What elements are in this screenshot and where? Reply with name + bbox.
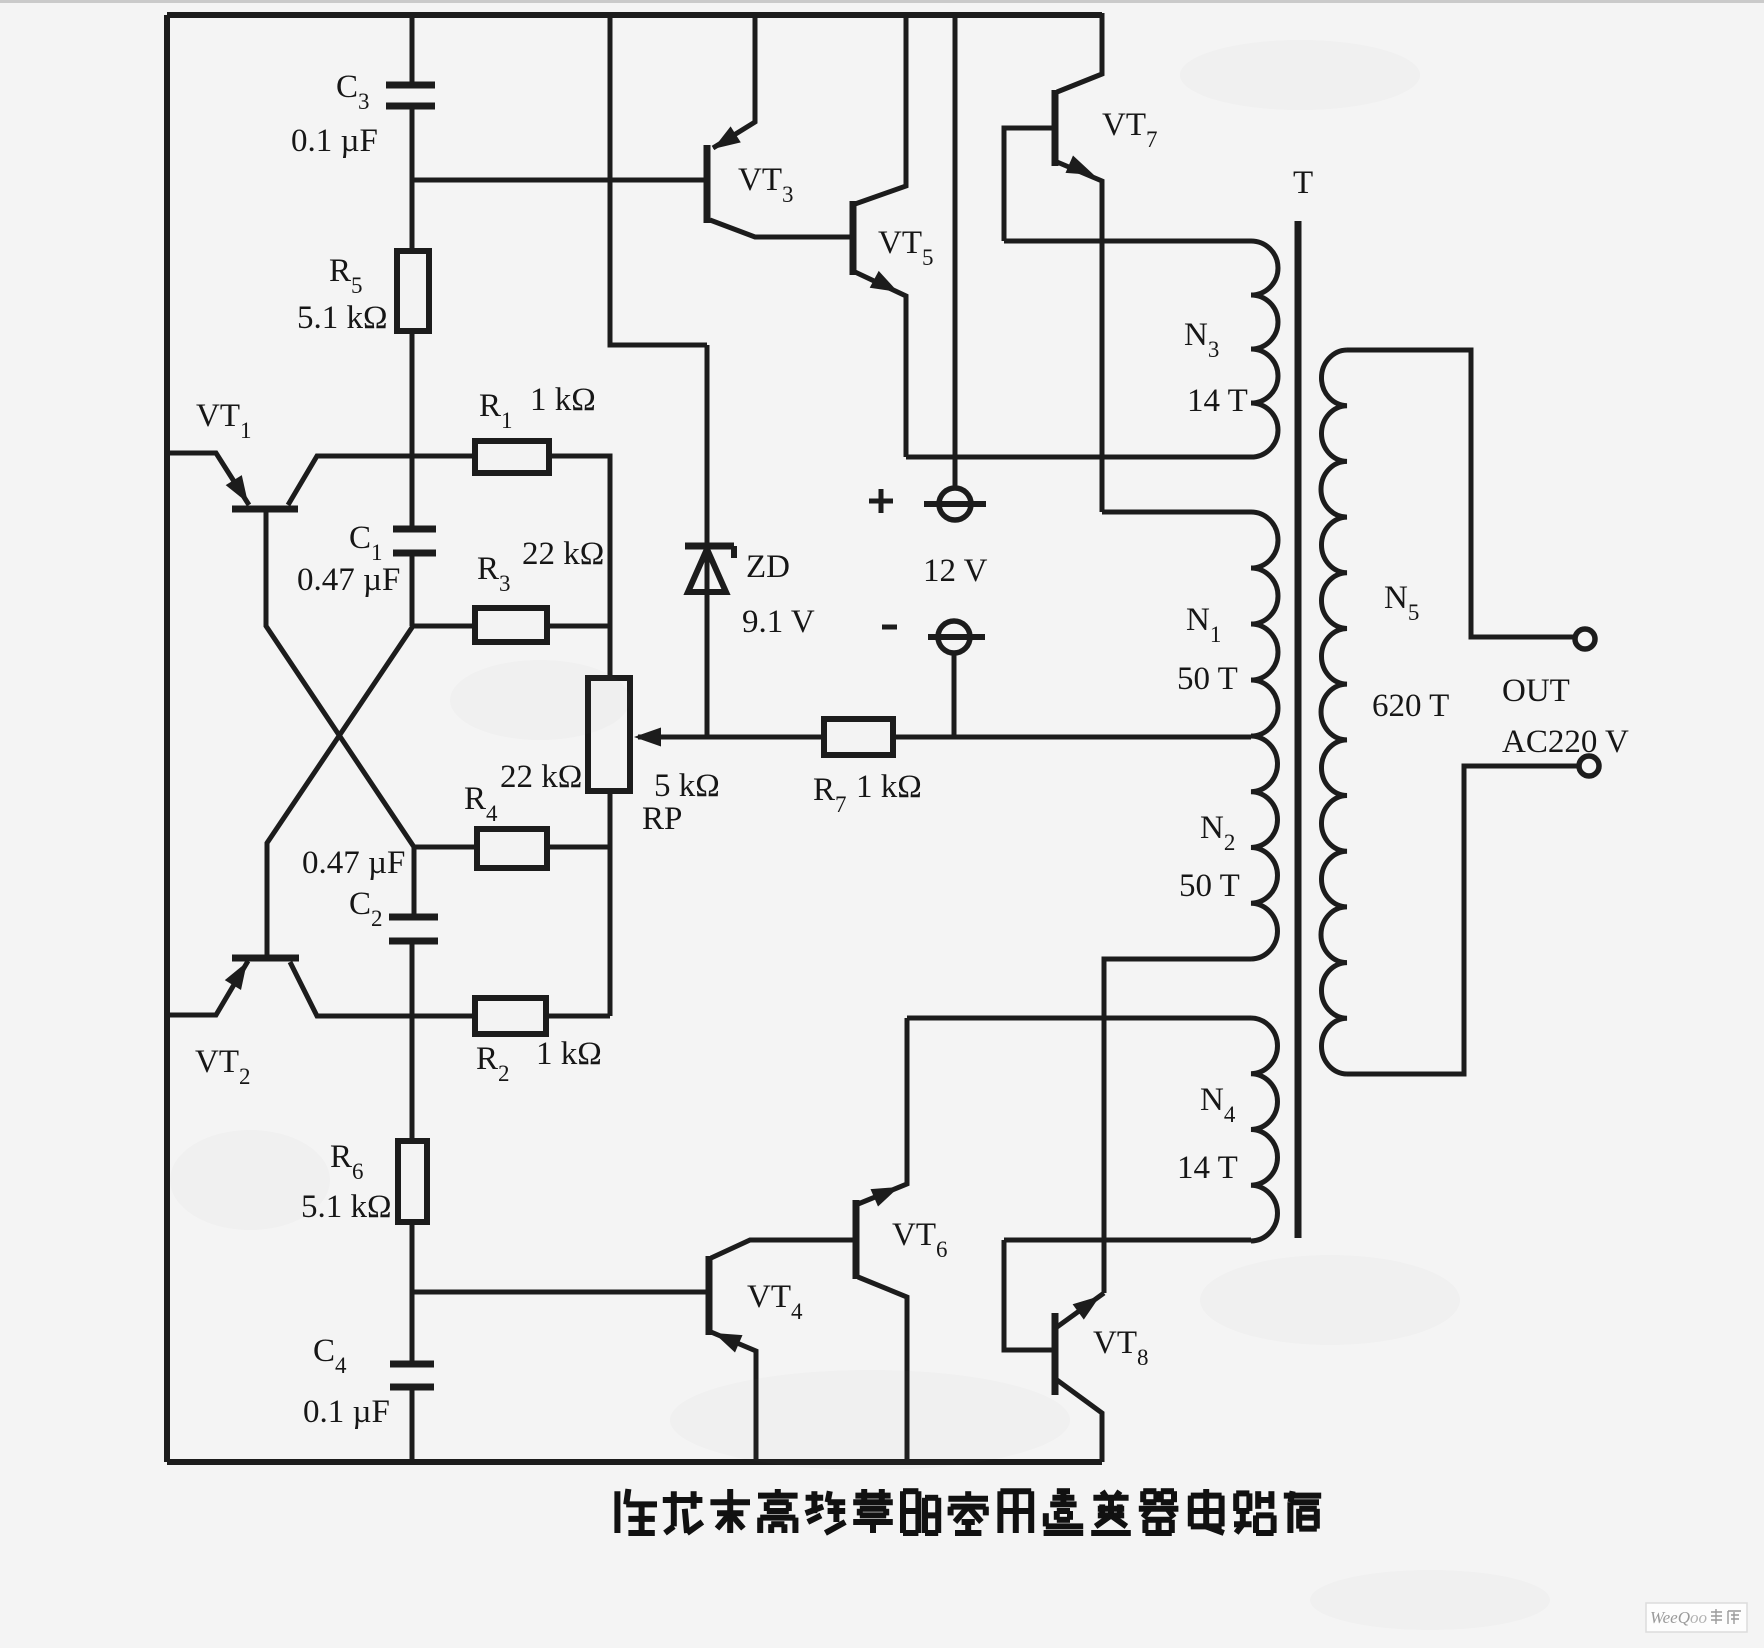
- arrow RP wiper: [638, 735, 710, 740]
- wire R4 left lead: [414, 845, 477, 850]
- battery positive terminal: [939, 488, 971, 520]
- wire N3 top line: [1004, 239, 1251, 244]
- wire VT5 emitter down to N3 bottom line: [855, 272, 906, 457]
- svg-text:C1: C1: [349, 520, 383, 565]
- arrow VT5 emitter (NPN): [870, 271, 898, 292]
- wire C2 top lead from R4 node: [412, 847, 417, 916]
- wire R2 node down to R6: [410, 1016, 415, 1141]
- wire VT7 collector to top rail corner: [1057, 13, 1102, 92]
- svg-text:AC220 V: AC220 V: [1502, 724, 1629, 760]
- svg-text:9.1 V: 9.1 V: [742, 604, 815, 640]
- zener diode ZD: [685, 543, 734, 550]
- svg-text:N5: N5: [1384, 580, 1419, 625]
- wire R5 bottom lead to node at R1 line: [410, 331, 415, 456]
- svg-text:R3: R3: [477, 551, 511, 596]
- svg-text:N1: N1: [1186, 602, 1221, 647]
- arrow VT1 emitter (PNP): [226, 475, 248, 503]
- wire wiper line from RP to R7: [707, 735, 826, 740]
- svg-text:1 kΩ: 1 kΩ: [856, 769, 922, 805]
- svg-text:N4: N4: [1200, 1082, 1236, 1127]
- svg-text:R6: R6: [330, 1139, 364, 1184]
- wire C4 bottom lead to bottom rail: [410, 1387, 415, 1462]
- wire C1 bottom lead to R3 node: [410, 553, 415, 626]
- terminal upper output: [1575, 629, 1595, 649]
- wire VT5 collector to top rail: [855, 13, 906, 204]
- watermark box WeeQoo: [1646, 1603, 1747, 1632]
- winding N3: [1251, 241, 1278, 457]
- wire left supply rail: [164, 15, 170, 1462]
- wire VT4 emitter to bottom rail: [711, 1332, 756, 1462]
- transistor VT4 base bar: [706, 1256, 713, 1335]
- wire VT8 base loop: [1004, 1240, 1052, 1350]
- wire C2 bottom lead: [410, 941, 415, 1016]
- transistor VT2 base bar: [232, 955, 299, 962]
- svg-text:R2: R2: [476, 1041, 510, 1086]
- winding N5: [1321, 350, 1347, 1074]
- capacitor C3: [386, 82, 435, 89]
- svg-text:R7: R7: [813, 772, 847, 817]
- winding N4: [1251, 1018, 1277, 1241]
- wire VT6 emitter up to N4 top: [858, 1018, 907, 1204]
- wire N4 top line from VT6 emitter: [907, 1016, 1251, 1021]
- wire VT4 base line from C4 node: [413, 1290, 706, 1295]
- svg-text:12 V: 12 V: [923, 553, 988, 589]
- wire from top rail jog to zener ZD: [610, 15, 707, 345]
- svg-text:VT3: VT3: [738, 162, 794, 207]
- wire VT6 collector to bottom rail: [858, 1277, 907, 1462]
- wire VT2 emitter from left rail: [167, 961, 248, 1015]
- capacitor C4: [390, 1361, 434, 1368]
- svg-text:620 T: 620 T: [1372, 688, 1449, 724]
- wire VT1 collector diagonal to R1 line: [288, 456, 476, 505]
- svg-text:R5: R5: [329, 253, 363, 298]
- scan smudges (decorative): [170, 40, 1550, 1630]
- svg-text:C4: C4: [313, 1333, 347, 1378]
- wire battery negative lead to R7 line: [952, 653, 957, 737]
- label battery minus sign: [882, 625, 897, 630]
- wire R3 right lead to RP column: [547, 624, 610, 629]
- capacitor C2: [389, 914, 438, 921]
- svg-text:1 kΩ: 1 kΩ: [536, 1036, 602, 1072]
- wire VT3 collector to VT5 base: [710, 220, 851, 237]
- svg-text:VT8: VT8: [1093, 1325, 1149, 1370]
- battery negative terminal: [938, 621, 970, 653]
- svg-text:VT7: VT7: [1102, 107, 1158, 152]
- wire R2 right lead: [546, 1014, 610, 1019]
- wire VT3 emitter from top rail: [713, 13, 755, 148]
- svg-text:0.47 µF: 0.47 µF: [297, 562, 400, 598]
- terminal lower output: [1579, 756, 1599, 776]
- svg-text:VT4: VT4: [747, 1279, 803, 1324]
- wire R7 to transformer center tap: [893, 735, 1251, 740]
- wire VT7 emitter down to N1 top: [1057, 162, 1102, 512]
- arrow VT4 emitter (PNP): [714, 1333, 743, 1353]
- svg-text:14 T: 14 T: [1187, 383, 1248, 419]
- svg-text:R4: R4: [464, 781, 498, 826]
- wire N2 bottom line down to VT8: [1104, 959, 1251, 1293]
- wire N1 top line: [1102, 510, 1251, 515]
- winding N2: [1251, 736, 1277, 959]
- wire N3 bottom line to VT5 emitter: [906, 455, 1251, 460]
- wire bottom supply rail: [167, 1459, 1102, 1465]
- wire VT3 base line from C3 node: [412, 178, 706, 183]
- caption title glyphs: [614, 1491, 620, 1533]
- resistor R3: [475, 608, 547, 642]
- wire VT2 collector diagonal to R2 line: [290, 962, 476, 1016]
- winding N1: [1251, 512, 1278, 736]
- arrow VT6 emitter (NPN): [871, 1187, 900, 1207]
- svg-text:N2: N2: [1200, 810, 1235, 855]
- svg-text:50 T: 50 T: [1179, 868, 1240, 904]
- wire C3 to R5 (junction with VT3 base line): [410, 106, 415, 251]
- arrow VT3 emitter (PNP): [713, 126, 741, 149]
- wire R1 right lead and vertical to RP top: [549, 456, 610, 678]
- wire R6 bottom to C4 (junction with VT4 base): [410, 1222, 415, 1362]
- resistor R4: [477, 829, 547, 868]
- wire battery positive lead from top rail: [953, 13, 958, 488]
- arrow VT8 emitter (NPN): [1073, 1296, 1100, 1320]
- svg-text:OUT: OUT: [1502, 673, 1570, 709]
- wire C3 top lead: [410, 13, 415, 84]
- resistor R7: [824, 719, 893, 755]
- wire R3 left lead: [413, 624, 475, 629]
- capacitor C1: [393, 526, 436, 533]
- svg-text:14 T: 14 T: [1177, 1150, 1238, 1186]
- svg-text:N3: N3: [1184, 317, 1219, 362]
- wire VT4 collector to VT6 base: [711, 1240, 854, 1258]
- svg-text:VT1: VT1: [196, 398, 252, 443]
- svg-text:0.1 µF: 0.1 µF: [303, 1394, 390, 1430]
- resistor R5: [397, 251, 429, 331]
- svg-text:RP: RP: [642, 801, 682, 837]
- svg-text:22 kΩ: 22 kΩ: [500, 759, 582, 795]
- label battery plus sign: [869, 499, 893, 504]
- arrow VT7 emitter (NPN): [1066, 156, 1095, 176]
- resistor R1: [475, 441, 549, 473]
- wire VT8 emitter to N2/N4 node: [1057, 1293, 1104, 1327]
- svg-text:R1: R1: [479, 388, 513, 433]
- arrow VT2 emitter (PNP): [225, 962, 247, 990]
- svg-text:VT6: VT6: [892, 1217, 948, 1262]
- wire VT7 base loop to N3 top line: [1004, 128, 1052, 241]
- transistor VT3 base bar: [704, 145, 711, 223]
- potentiometer RP body: [588, 678, 630, 791]
- svg-text:C3: C3: [336, 69, 370, 114]
- resistor R2: [475, 998, 546, 1034]
- wire VT1 emitter from left rail: [167, 453, 249, 505]
- wire C1 top lead: [410, 456, 415, 528]
- wire N4 bottom line / VT8 base top line: [1004, 1238, 1251, 1243]
- wire R4 right lead: [547, 845, 610, 850]
- transistor VT6 base bar: [853, 1200, 860, 1279]
- resistor R6: [398, 1141, 427, 1222]
- svg-text:T: T: [1293, 165, 1313, 201]
- wire RP bottom lead down to R2 line: [608, 791, 613, 1016]
- transistor VT5 base bar: [850, 201, 857, 275]
- wire VT8 collector to bottom rail corner: [1057, 1380, 1102, 1462]
- svg-text:5 kΩ: 5 kΩ: [654, 768, 720, 804]
- svg-text:0.1 µF: 0.1 µF: [291, 123, 378, 159]
- svg-text:50 T: 50 T: [1177, 661, 1238, 697]
- transistor VT7 base bar: [1052, 90, 1059, 166]
- wire N5 top lead to upper output terminal: [1347, 350, 1574, 637]
- wire N5 bottom lead to lower output terminal: [1347, 766, 1578, 1074]
- transistor VT1 base bar: [232, 506, 298, 513]
- svg-text:VT2: VT2: [195, 1044, 251, 1089]
- svg-text:WeeQoo: WeeQoo: [1650, 1608, 1707, 1627]
- wire VT1 base vertical and cross-couple diagonal to R4 node: [266, 512, 414, 847]
- wire top supply rail: [167, 12, 1102, 18]
- scan edge line at very top: [0, 0, 1764, 3]
- svg-text:0.47 µF: 0.47 µF: [302, 845, 405, 881]
- svg-text:5.1 kΩ: 5.1 kΩ: [297, 300, 388, 336]
- svg-text:ZD: ZD: [746, 549, 790, 585]
- transformer core: [1295, 221, 1302, 1238]
- wire cross-couple diagonal from R3 node to VT2 base: [267, 626, 413, 956]
- transistor VT8 base bar: [1052, 1313, 1059, 1395]
- svg-text:22 kΩ: 22 kΩ: [522, 536, 604, 572]
- svg-text:VT5: VT5: [878, 225, 934, 270]
- svg-text:1 kΩ: 1 kΩ: [530, 382, 596, 418]
- svg-text:C2: C2: [349, 886, 383, 931]
